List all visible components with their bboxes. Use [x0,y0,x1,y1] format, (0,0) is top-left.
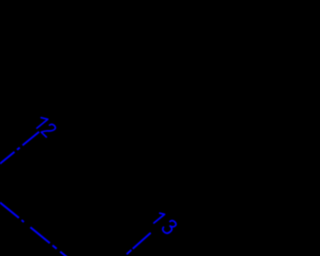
wire leader line to 12 [0,132,39,164]
wire lower-left dash-dot line [0,203,70,256]
node label 13 [152,210,177,235]
node label 12 [34,115,57,137]
wire leader line to 13 [125,233,151,256]
